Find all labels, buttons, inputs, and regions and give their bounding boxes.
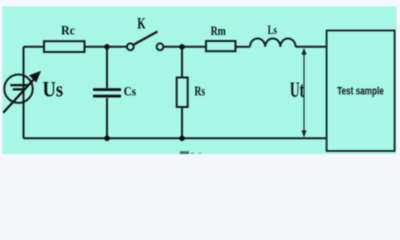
svg-text:Ut: Ut: [290, 77, 305, 102]
svg-text:Us: Us: [43, 78, 64, 102]
svg-text:K: K: [137, 16, 145, 33]
svg-text:Test sample: Test sample: [337, 86, 384, 98]
svg-text:Ls: Ls: [268, 23, 277, 37]
svg-text:Rc: Rc: [61, 24, 76, 38]
svg-text:Rs: Rs: [194, 84, 205, 99]
svg-text:Rm: Rm: [211, 24, 227, 38]
svg-text:Cs: Cs: [124, 85, 137, 99]
